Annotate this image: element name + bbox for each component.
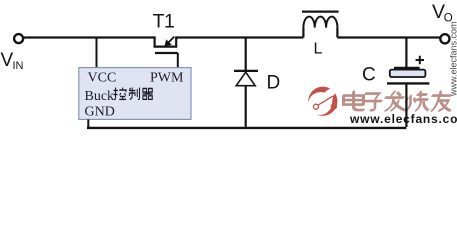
svg-text:C: C — [362, 65, 376, 86]
svg-text:D: D — [267, 73, 281, 94]
wire: diode top lead — [245, 39, 247, 71]
inductor core bar — [302, 11, 339, 13]
烧 — [407, 91, 429, 110]
svg-text:PWM: PWM — [150, 70, 184, 85]
transistor arrow — [167, 37, 174, 44]
controller box — [79, 68, 191, 120]
svg-text:IN: IN — [13, 60, 24, 72]
svg-text:L: L — [314, 41, 323, 58]
制 — [129, 90, 135, 92]
wire: top rail inductor to VO — [337, 36, 440, 38]
发 — [386, 91, 405, 110]
svg-text:www.elecfans.com: www.elecfans.com — [349, 112, 457, 126]
diode cathode bar — [234, 70, 258, 72]
watermark logo disc — [308, 87, 337, 116]
wire: top rail T1 to inductor — [176, 36, 303, 38]
器 — [143, 89, 147, 93]
子 — [364, 93, 382, 110]
控 — [114, 88, 116, 100]
wire: GND drop to bottom rail — [87, 119, 89, 127]
capacitor top plate — [394, 67, 420, 69]
watermark chinese text 电子发烧友 — [344, 91, 451, 110]
bottom rail — [87, 127, 406, 129]
gate lead wire to PWM — [177, 53, 179, 68]
wire: capacitor top lead — [405, 39, 407, 68]
capacitor bottom plate — [387, 82, 429, 84]
svg-text:GND: GND — [85, 104, 115, 119]
output terminal VO — [440, 34, 449, 43]
input terminal VIN — [14, 34, 23, 43]
wire: VCC drop — [96, 39, 98, 68]
wire: diode bottom lead — [245, 86, 247, 127]
svg-text:Buck: Buck — [85, 89, 115, 104]
svg-text:T1: T1 — [153, 11, 175, 33]
capacitor plus sign — [416, 56, 424, 64]
capacitor body — [390, 70, 426, 77]
友 — [433, 91, 452, 110]
电 — [344, 91, 364, 110]
wire: top rail from VIN to T1 — [24, 36, 155, 38]
diode D triangle — [236, 72, 255, 86]
svg-text:VCC: VCC — [88, 70, 117, 85]
inductor L — [302, 28, 304, 38]
transistor gate bar — [155, 52, 178, 54]
transistor T1 channel dip — [155, 36, 177, 46]
wire: capacitor bottom lead — [405, 85, 407, 128]
svg-text:O: O — [444, 13, 453, 25]
svg-text:www.elecfans.com: www.elecfans.com — [449, 21, 457, 97]
watermark chinese text 电子发烧友 shadow — [343, 92, 450, 111]
